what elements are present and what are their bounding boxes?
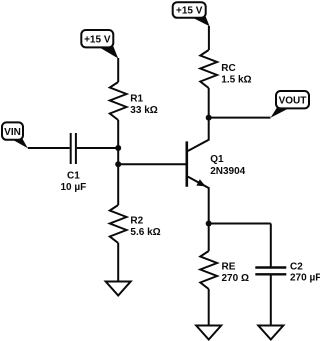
svg-text:10 µF: 10 µF xyxy=(61,182,87,193)
svg-text:RE: RE xyxy=(222,262,236,273)
svg-text:5.6 kΩ: 5.6 kΩ xyxy=(130,227,160,238)
svg-text:+15 V: +15 V xyxy=(84,34,111,45)
svg-text:VIN: VIN xyxy=(4,127,21,138)
svg-text:C2: C2 xyxy=(290,261,303,272)
svg-text:Q1: Q1 xyxy=(210,154,224,165)
svg-text:1.5 kΩ: 1.5 kΩ xyxy=(221,75,251,86)
svg-text:C1: C1 xyxy=(67,171,80,182)
svg-text:R2: R2 xyxy=(130,216,143,227)
svg-text:VOUT: VOUT xyxy=(279,95,307,106)
svg-text:270 µF: 270 µF xyxy=(290,273,320,284)
svg-text:RC: RC xyxy=(221,63,235,74)
svg-text:R1: R1 xyxy=(130,94,143,105)
svg-text:2N3904: 2N3904 xyxy=(210,166,245,177)
svg-text:270 Ω: 270 Ω xyxy=(222,273,249,284)
svg-text:33 kΩ: 33 kΩ xyxy=(130,105,157,116)
svg-text:+15 V: +15 V xyxy=(176,6,203,17)
